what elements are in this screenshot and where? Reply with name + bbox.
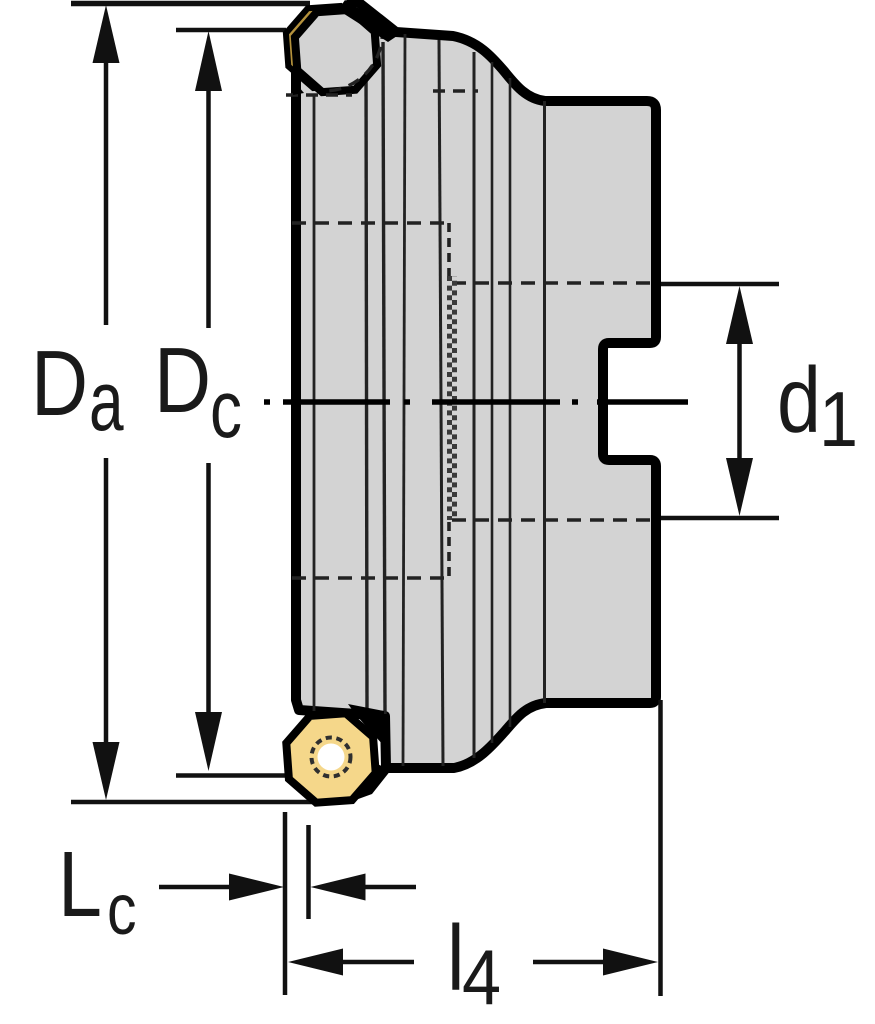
d1 extension top: [661, 282, 779, 287]
hidden dashed line upper-right: [452, 281, 659, 285]
svg-text:4: 4: [462, 934, 501, 1021]
extension line Dc top: [176, 28, 286, 33]
serration zigzag: [450, 276, 455, 520]
extension line Da top: [71, 1, 310, 7]
svg-text:c: c: [210, 362, 242, 455]
svg-text:c: c: [107, 868, 137, 949]
interior line x314: [313, 95, 316, 711]
hidden dashed line upper-left: [292, 221, 447, 225]
hidden dashed vertical top: [447, 223, 451, 276]
centerline: [264, 399, 688, 405]
svg-text:D: D: [31, 332, 88, 435]
insert hole: [318, 744, 345, 771]
main cutter body: [296, 2, 656, 768]
arrow d1 down: [726, 458, 753, 516]
pocket black bottom-right of bottom insert: [350, 763, 391, 802]
interior line x367: [366, 56, 367, 713]
interior line x497: [491, 62, 494, 743]
interior line x477: [473, 52, 476, 758]
svg-text:L: L: [58, 833, 102, 936]
svg-text:1: 1: [819, 376, 858, 463]
Lc extension left: [283, 812, 288, 995]
interior line x384: [383, 42, 385, 714]
Lc arrow left: [159, 885, 235, 890]
svg-text:a: a: [89, 354, 124, 448]
bottom insert octagon (yellow): [286, 713, 375, 802]
pocket filler top-right of top insert: [338, 0, 400, 42]
pocket corner wedge bottom-left of top insert: [293, 80, 304, 95]
interior line x440: [439, 40, 443, 766]
arrow d1 up: [726, 286, 753, 344]
arrow Da up: [93, 5, 120, 63]
l4 arrow right: [533, 960, 606, 965]
gold insert behind top octagon: [286, 6, 368, 88]
Lc arrow right: [362, 885, 416, 890]
insert hole dashed ring: [312, 738, 351, 777]
top insert octagon: [295, 10, 377, 92]
arrow Dc down: [195, 712, 222, 771]
hidden dashed stub right of top insert: [433, 89, 478, 92]
l4 arrow left: [340, 960, 414, 965]
extension line Dc bottom: [176, 773, 289, 778]
hidden dashed arc under top insert: [326, 27, 382, 91]
hidden dashed vertical bottom: [447, 522, 451, 578]
svg-text:D: D: [154, 329, 211, 432]
arrow Dc up: [195, 31, 222, 91]
interior line x546: [543, 101, 546, 703]
dimension Da vertical line: [104, 55, 109, 325]
l4 extension right: [658, 700, 663, 996]
hidden dashed line lower-right: [452, 518, 659, 522]
hidden dashed line lower-left: [292, 576, 447, 580]
d1 extension bottom: [661, 516, 779, 521]
arrow Da down: [93, 742, 120, 800]
dimension Dc vertical line: [206, 85, 211, 328]
extension line Da bottom: [71, 800, 314, 805]
Lc extension right: [306, 825, 311, 919]
pocket black top-right of bottom insert: [348, 704, 384, 746]
d1 dimension line: [737, 330, 742, 470]
interior line x518: [509, 78, 512, 727]
interior line x404: [403, 34, 405, 766]
hidden dashed seat line under top insert: [286, 93, 352, 96]
svg-text:d: d: [777, 349, 821, 452]
